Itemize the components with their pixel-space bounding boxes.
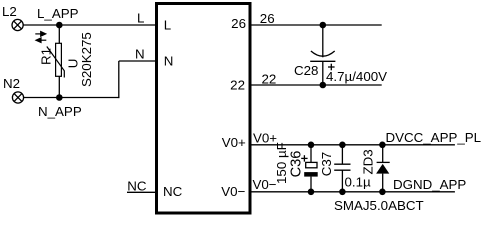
varistor R1 diagonal stroke: [47, 47, 65, 78]
svg-text:V0−: V0−: [221, 184, 245, 199]
svg-text:C28: C28: [294, 63, 318, 78]
capacitor C36 positive plate (hollow): [306, 162, 317, 167]
wire vertical to N pin: [118, 61, 120, 98]
svg-text:L2: L2: [2, 4, 17, 19]
svg-text:S20K275: S20K275: [79, 32, 94, 87]
ZD3 anode triangle: [376, 164, 389, 174]
capacitor C36 top lead: [310, 145, 312, 162]
surge bidirectional arrows symbol: [35, 32, 46, 43]
junction pin26 / C28: [320, 22, 327, 29]
svg-text:C36: C36: [289, 151, 305, 178]
capacitor C28 curved plate: [311, 51, 335, 56]
svg-text:NC: NC: [163, 184, 183, 199]
junction pin22 / C28: [320, 82, 327, 89]
junction V0+ / C36: [308, 142, 315, 149]
C28 plus polarity mark: [328, 64, 335, 71]
terminal L2: [12, 19, 23, 30]
svg-text:22: 22: [230, 77, 245, 92]
svg-text:R1: R1: [38, 48, 53, 65]
terminal N2: [12, 92, 23, 103]
TVS diode ZD3 bottom lead: [382, 174, 384, 192]
svg-text:NC: NC: [127, 179, 147, 194]
wire pin 22: [250, 84, 382, 86]
NC stub wire: [127, 191, 157, 193]
svg-text:N: N: [164, 54, 174, 69]
svg-text:0.1µ: 0.1µ: [345, 175, 372, 190]
svg-text:DVCC_APP_PL: DVCC_APP_PL: [386, 130, 481, 145]
junction V0- / C37: [339, 189, 346, 196]
capacitor C28 bottom lead: [322, 61, 324, 85]
svg-text:L_APP: L_APP: [37, 6, 79, 21]
IC box U1: [157, 4, 251, 214]
svg-text:ZD3: ZD3: [360, 149, 375, 174]
wire N (corner to IC pin N): [119, 60, 157, 62]
wire N_APP (N2 to corner): [24, 97, 120, 99]
svg-text:L: L: [164, 17, 171, 32]
varistor R1 lead top: [58, 25, 60, 43]
capacitor C28 top lead: [322, 25, 324, 57]
svg-text:DGND_APP: DGND_APP: [393, 177, 466, 192]
junction V0+ / C37: [339, 142, 346, 149]
svg-text:N: N: [135, 46, 145, 61]
svg-text:26: 26: [231, 16, 246, 31]
ZD3 cathode bar: [377, 161, 390, 163]
capacitor C36 bottom lead: [310, 177, 312, 192]
capacitor C37 top lead: [341, 145, 343, 164]
svg-text:22: 22: [262, 71, 277, 86]
svg-text:26: 26: [260, 11, 275, 26]
TVS diode ZD3 top lead: [382, 145, 384, 163]
junction V0+ / ZD3: [379, 142, 386, 149]
junction V0- / ZD3: [379, 189, 386, 196]
svg-text:N2: N2: [3, 76, 20, 91]
junction N_APP wire / R1 bottom: [56, 94, 63, 101]
svg-text:V0+: V0+: [222, 135, 246, 150]
varistor R1 body: [56, 43, 62, 76]
wire V0+ rail (DVCC_APP_PL): [250, 144, 455, 146]
C36 plus polarity mark: [301, 155, 307, 161]
svg-text:4.7µ/400V: 4.7µ/400V: [326, 69, 387, 84]
capacitor C36 negative plate (filled): [304, 172, 318, 177]
varistor R1 lead bottom: [58, 76, 60, 97]
junction L wire / R1 top: [56, 22, 63, 29]
wire L_APP (L2 to IC pin L): [23, 24, 156, 26]
junction V0- / C36: [308, 189, 315, 196]
capacitor C37 plate bottom: [334, 169, 350, 171]
capacitor C28 straight plate: [310, 60, 335, 62]
svg-text:150 µF: 150 µF: [274, 142, 289, 184]
wire pin 26: [250, 24, 382, 26]
svg-text:L: L: [137, 11, 144, 26]
svg-text:N_APP: N_APP: [38, 104, 82, 119]
svg-text:C37: C37: [319, 152, 334, 176]
capacitor C37 plate top: [334, 163, 350, 165]
svg-text:SMAJ5.0ABCT: SMAJ5.0ABCT: [334, 198, 424, 213]
capacitor C37 bottom lead: [341, 170, 343, 192]
wire V0- rail (DGND_APP): [250, 191, 455, 193]
